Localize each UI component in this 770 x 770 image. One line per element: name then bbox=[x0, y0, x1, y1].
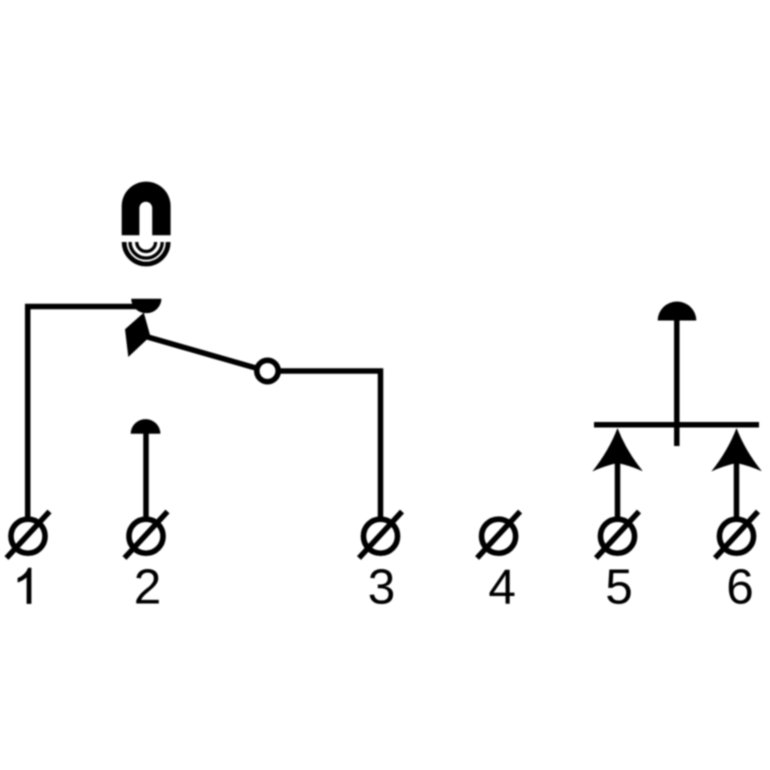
svg-text:6: 6 bbox=[726, 560, 754, 615]
svg-text:5: 5 bbox=[605, 560, 633, 615]
svg-text:2: 2 bbox=[134, 560, 162, 615]
svg-text:3: 3 bbox=[368, 560, 396, 615]
svg-text:4: 4 bbox=[488, 560, 516, 615]
